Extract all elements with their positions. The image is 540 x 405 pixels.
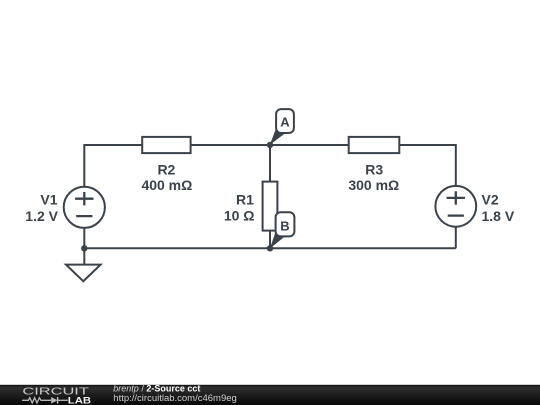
svg-text:B: B — [280, 219, 289, 234]
svg-text:300 mΩ: 300 mΩ — [348, 177, 399, 193]
logo resistor zigzag — [22, 398, 51, 403]
svg-text:http://circuitlab.com/c46m9eg: http://circuitlab.com/c46m9eg — [113, 393, 237, 403]
svg-text:R3: R3 — [365, 161, 383, 177]
svg-text:R1: R1 — [236, 192, 254, 208]
wire R1 bottom to node B — [269, 231, 271, 249]
resistor R2 — [142, 137, 190, 153]
svg-text:LAB: LAB — [68, 395, 91, 405]
svg-text:V1: V1 — [40, 191, 57, 207]
svg-text:R2: R2 — [157, 161, 175, 177]
wire node A to R3 — [270, 144, 349, 146]
logo diode — [51, 397, 68, 404]
junction dot left — [81, 245, 87, 251]
wire bottom rail — [84, 247, 456, 249]
resistor R1 — [263, 182, 278, 231]
node A flag box — [276, 109, 294, 133]
ground — [66, 265, 101, 282]
V2 plus sign — [447, 191, 465, 204]
svg-text:10 Ω: 10 Ω — [224, 207, 255, 223]
svg-text:400 mΩ: 400 mΩ — [141, 177, 192, 193]
node A flag tail — [270, 128, 285, 145]
wire node A to R1 top — [269, 145, 271, 182]
svg-text:V2: V2 — [482, 192, 499, 208]
voltage source V1 — [64, 187, 105, 228]
svg-text:A: A — [280, 115, 290, 130]
wire V1 bottom — [83, 228, 85, 248]
node A junction dot — [267, 142, 273, 148]
svg-text:1.2 V: 1.2 V — [25, 208, 58, 224]
wire R3 to V2 top — [399, 145, 456, 186]
wire ground stem — [83, 248, 85, 264]
footer bar — [0, 385, 540, 405]
node B junction dot — [267, 245, 273, 251]
V1 plus sign — [75, 192, 93, 205]
svg-text:1.8 V: 1.8 V — [482, 208, 515, 224]
V2 minus sign — [448, 214, 464, 216]
node B flag box — [276, 212, 295, 236]
wire R2 to node A — [191, 144, 270, 146]
node B flag tail — [270, 232, 285, 249]
resistor R3 — [349, 137, 400, 153]
voltage source V2 — [435, 186, 476, 227]
V1 minus sign — [76, 215, 92, 217]
wire left-vertical and top-left segment — [84, 145, 142, 187]
wire V2 bottom — [455, 227, 457, 249]
